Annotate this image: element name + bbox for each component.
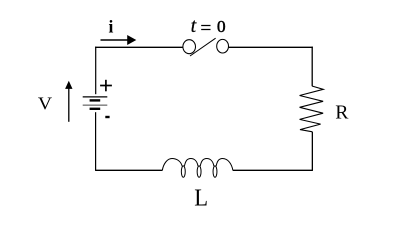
switch right contact circle (217, 39, 229, 53)
V source arrow (65, 81, 72, 122)
svg-text:=: = (200, 17, 211, 39)
svg-text:0: 0 (217, 17, 226, 36)
inductor hump 4 (216, 159, 233, 171)
svg-text:L: L (194, 186, 208, 212)
current arrow i (101, 35, 137, 45)
wire top-right segment (229, 46, 313, 48)
wire bottom-left segment (95, 169, 162, 171)
svg-text:i: i (109, 17, 114, 37)
wire left vertical lower (95, 112, 97, 170)
wire top-left segment (95, 46, 183, 48)
switch blade (190, 38, 216, 56)
inductor loop 2 (197, 166, 201, 177)
inductor hump 3 (200, 159, 214, 167)
inductor hump 2 (184, 159, 198, 167)
inductor L coil: hump 1 (162, 159, 182, 171)
battery minus sign (105, 116, 109, 118)
switch left contact circle (183, 40, 196, 54)
inductor loop 3 (213, 166, 217, 177)
inductor loop 1 (181, 166, 185, 177)
wire right vertical lower (311, 132, 313, 171)
resistor R zigzag (300, 86, 324, 132)
svg-text:R: R (335, 102, 348, 123)
svg-text:t: t (191, 15, 197, 37)
svg-text:V: V (38, 93, 53, 113)
wire bottom-right segment (233, 169, 313, 171)
wire right vertical upper (311, 47, 313, 86)
battery V (two-cell) (83, 97, 108, 109)
battery plus sign (100, 80, 112, 92)
wire left vertical upper (95, 47, 97, 95)
